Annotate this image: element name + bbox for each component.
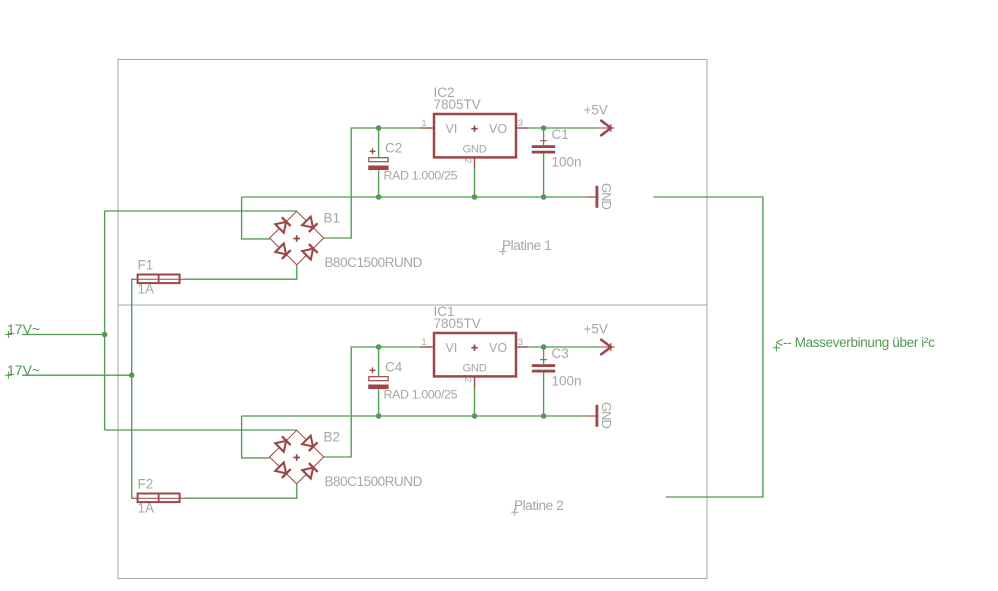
wire IC1 GND pin to rail xyxy=(474,387,476,416)
diode NE of bridge B2 xyxy=(302,436,318,452)
svg-text:<-- Masseverbinung über i²c: <-- Masseverbinung über i²c xyxy=(776,335,936,350)
capacitor C3 top plate xyxy=(532,364,555,367)
IC1 pin 1 stub xyxy=(421,346,433,348)
ground pin stub (Platine 2) xyxy=(587,415,599,417)
svg-text:1: 1 xyxy=(421,118,426,128)
svg-text:VO: VO xyxy=(489,122,507,136)
junction IC1 GND pin junction xyxy=(472,413,478,419)
IC1 pin 2 stub xyxy=(474,377,476,388)
svg-text:3: 3 xyxy=(518,118,523,128)
diode NE of bridge B1 xyxy=(302,217,318,233)
svg-text:B2: B2 xyxy=(324,430,341,445)
wire IC2 GND pin to rail xyxy=(474,168,476,197)
junction C1 tap on +5V wire xyxy=(541,125,547,131)
junction input 2 to AC2 bus xyxy=(129,372,135,378)
node Platine 2 origin cross xyxy=(511,509,518,516)
diode SE of bridge B2 xyxy=(302,463,318,479)
wire fuse F2 left lead xyxy=(132,497,134,499)
wire 17V~ input 2 horizontal xyxy=(22,374,132,376)
power symbol +5V (Platine 2) xyxy=(598,343,615,351)
svg-text:1A: 1A xyxy=(138,501,155,516)
capacitor C4 negative plate xyxy=(368,385,388,390)
svg-text:GND: GND xyxy=(463,362,487,374)
ground bar (Platine 1) xyxy=(596,186,599,208)
svg-text:2: 2 xyxy=(463,158,473,163)
capacitor C1 pin tick xyxy=(540,140,547,142)
capacitor C2 polarity plus xyxy=(370,148,376,154)
wire AC2 fuse vertical bus xyxy=(131,279,133,498)
svg-text:100n: 100n xyxy=(552,374,582,389)
wire C4 top lead xyxy=(378,347,380,376)
wire AC1 left vertical bus xyxy=(104,211,106,430)
wire C3 top lead xyxy=(543,347,545,364)
svg-text:B1: B1 xyxy=(324,211,341,226)
fuse F1 center divider xyxy=(158,275,160,284)
wire C2 bottom lead xyxy=(378,171,380,198)
svg-text:100n: 100n xyxy=(552,155,582,170)
IC1 internal plus mark xyxy=(471,345,477,351)
bridge B2 plus polarity mark xyxy=(293,454,300,461)
capacitor C3 bottom plate xyxy=(532,370,555,373)
junction C1 tap on GND rail xyxy=(541,194,547,200)
junction C2 tap on GND rail xyxy=(376,194,382,200)
svg-text:RAD 1.000/25: RAD 1.000/25 xyxy=(384,169,458,183)
svg-text:C3: C3 xyxy=(552,346,569,361)
svg-text:C4: C4 xyxy=(385,360,403,375)
svg-text:B80C1500RUND: B80C1500RUND xyxy=(325,474,423,489)
fuse F2 center divider xyxy=(158,494,160,503)
svg-text:+5V: +5V xyxy=(584,322,608,337)
wire AC1 to bridge B2 top vertex xyxy=(105,429,297,431)
frame Platine 1 box xyxy=(118,60,707,306)
svg-text:2: 2 xyxy=(463,377,473,382)
wire GND rail to bridge B2 minus vertex xyxy=(242,416,270,458)
svg-text:VO: VO xyxy=(489,341,507,355)
svg-text:7805TV: 7805TV xyxy=(434,97,481,112)
svg-text:+5V: +5V xyxy=(584,103,608,118)
node Platine 1 origin cross xyxy=(499,248,506,255)
junction input 1 to AC1 bus xyxy=(102,332,108,338)
wire C4 bottom lead xyxy=(378,390,380,417)
node 17V~ input 1 origin cross xyxy=(5,331,12,338)
op-amp style regulator IC2 box xyxy=(434,114,516,157)
bridge rectifier B1 diamond outline xyxy=(270,211,324,265)
diode NW of bridge B1 xyxy=(275,217,291,233)
wire fuse F2 to bridge B2 bottom vertex xyxy=(185,484,297,498)
IC1 pin 3 stub xyxy=(517,346,528,348)
wire fuse F1 left lead xyxy=(132,278,134,280)
svg-text:B80C1500RUND: B80C1500RUND xyxy=(325,255,423,270)
junction C3 tap on +5V wire xyxy=(541,344,547,350)
diode SW of bridge B2 xyxy=(275,462,291,478)
capacitor C2 positive plate xyxy=(369,158,388,162)
capacitor C1 bottom plate xyxy=(532,151,555,154)
bridge B1 plus polarity mark xyxy=(293,235,300,242)
wire C1 top lead xyxy=(543,128,545,145)
capacitor C1 top plate xyxy=(532,145,555,148)
svg-text:GND: GND xyxy=(463,143,487,155)
svg-text:Platine 1: Platine 1 xyxy=(502,238,551,253)
svg-text:3: 3 xyxy=(518,337,523,347)
fuse F1 through line and pin stubs xyxy=(132,278,186,280)
wire fuse F1 to bridge B1 bottom vertex xyxy=(185,265,297,279)
svg-text:7805TV: 7805TV xyxy=(434,316,481,331)
IC2 pin 1 stub xyxy=(421,127,433,129)
svg-text:1: 1 xyxy=(421,337,426,347)
node Masseverbinung origin cross xyxy=(773,344,780,351)
svg-text:F2: F2 xyxy=(138,477,154,492)
svg-text:GND: GND xyxy=(599,183,614,210)
svg-text:RAD 1.000/25: RAD 1.000/25 xyxy=(384,388,458,402)
wire C3 bottom lead xyxy=(543,372,545,416)
wire Masseverbindung loop between boards xyxy=(653,197,763,497)
junction IC2 GND pin junction xyxy=(472,194,478,200)
junction C4 tap on GND rail xyxy=(376,413,382,419)
svg-text:C1: C1 xyxy=(552,127,569,142)
capacitor C4 polarity plus xyxy=(370,367,376,373)
junction C2 tap on VI rail xyxy=(376,125,382,131)
svg-text:VI: VI xyxy=(446,122,458,136)
ground pin stub (Platine 1) xyxy=(587,196,599,198)
svg-text:C2: C2 xyxy=(385,141,402,156)
wire bridge B2 plus to IC1 VI xyxy=(324,347,421,457)
wire 17V~ input 1 horizontal xyxy=(22,334,105,336)
svg-text:1A: 1A xyxy=(138,282,155,297)
wire C2 top lead xyxy=(378,128,380,157)
wire bridge B1 plus to IC2 VI xyxy=(324,128,421,238)
svg-text:GND: GND xyxy=(599,402,614,429)
diode SW of bridge B1 xyxy=(275,243,291,259)
svg-text:VI: VI xyxy=(446,341,458,355)
ground bar (Platine 2) xyxy=(596,405,599,427)
node 17V~ input 2 origin cross xyxy=(5,372,12,379)
op-amp style regulator IC1 box xyxy=(434,333,516,376)
svg-text:F1: F1 xyxy=(138,258,154,273)
junction C4 tap on VI rail xyxy=(376,344,382,350)
wire GND rail to bridge B1 minus vertex xyxy=(242,197,270,239)
IC2 pin 2 stub xyxy=(474,158,476,169)
junction C3 tap on GND rail xyxy=(541,413,547,419)
IC2 pin 3 stub xyxy=(517,127,528,129)
wire C1 bottom lead xyxy=(543,153,545,197)
diode NW of bridge B2 xyxy=(275,436,291,452)
frame Platine 2 box xyxy=(118,305,707,579)
capacitor C2 negative plate xyxy=(368,166,388,171)
capacitor C3 pin tick xyxy=(540,359,547,361)
wire IC1 VO to +5V xyxy=(529,346,599,348)
wire AC1 to bridge B1 top vertex xyxy=(105,210,297,212)
diode SE of bridge B1 xyxy=(302,244,318,260)
fuse F2 through line and pin stubs xyxy=(132,497,186,499)
capacitor C4 positive plate xyxy=(369,377,388,381)
IC2 internal plus mark xyxy=(471,126,477,132)
wire IC2 VO to +5V xyxy=(529,127,599,129)
power symbol +5V (Platine 1) xyxy=(598,124,615,132)
fuse F1 body xyxy=(138,275,180,284)
bridge rectifier B2 diamond outline xyxy=(270,430,324,484)
wire GND rail (Platine 2) xyxy=(242,415,587,417)
svg-text:Platine 2: Platine 2 xyxy=(514,498,563,513)
wire GND rail (Platine 1) xyxy=(242,196,587,198)
fuse F2 body xyxy=(138,494,180,503)
